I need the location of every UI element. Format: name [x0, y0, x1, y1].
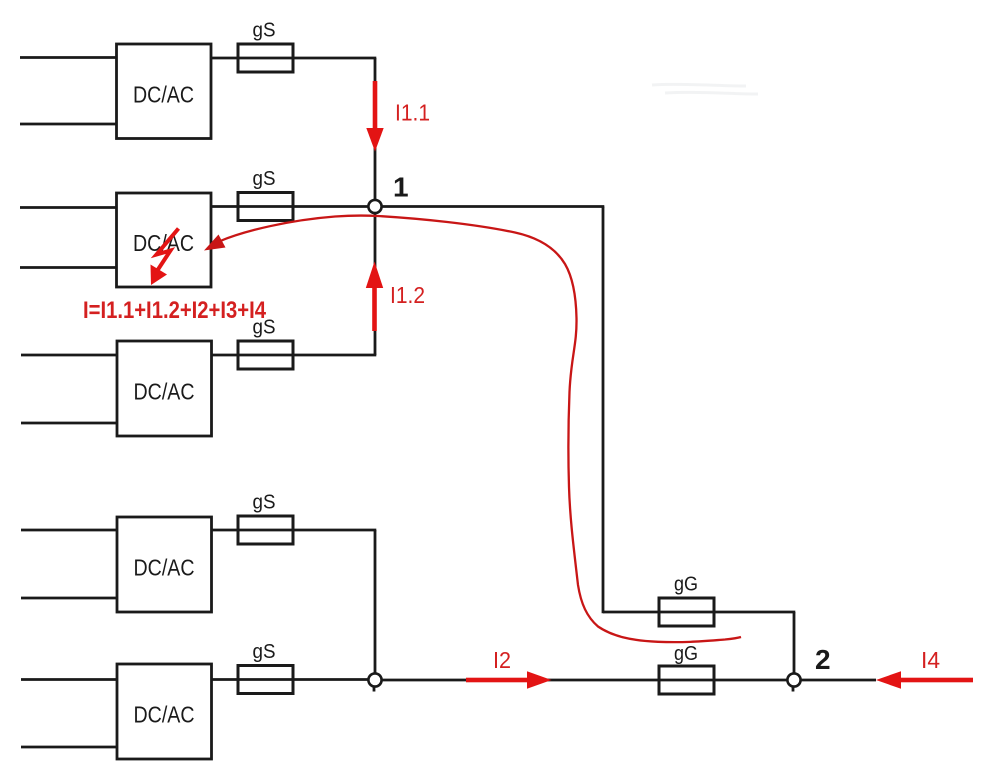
fuse F3 gS: [238, 341, 293, 369]
wire U4 output to fuse F4: [212, 529, 377, 532]
svg-text:DC/AC: DC/AC: [134, 702, 195, 728]
svg-text:DC/AC: DC/AC: [134, 379, 195, 405]
fault lightning bolt in U2: [157, 229, 179, 272]
wire vertical drop to node 2: [793, 612, 796, 673]
inverter U2 DC/AC: [117, 193, 212, 287]
wire bus node A to fuse G2: [382, 679, 788, 682]
svg-text:gG: gG: [674, 643, 698, 665]
wire U1 DC input top: [20, 56, 117, 59]
inverter U5 DC/AC: [117, 664, 212, 759]
wire U4 DC input top: [21, 529, 117, 532]
wire U3 output to fuse F3: [212, 354, 377, 357]
wire U2 output to fuse F2: [211, 205, 369, 208]
svg-text:1: 1: [393, 172, 409, 203]
fuse F1 gS: [238, 44, 293, 72]
wire U5 DC input top: [21, 678, 117, 681]
wire vertical rise to node 1: [374, 213, 377, 355]
svg-text:gS: gS: [253, 168, 276, 190]
svg-text:I1.2: I1.2: [390, 282, 425, 308]
fuse G1 gG: [659, 598, 714, 626]
svg-text:DC/AC: DC/AC: [133, 82, 194, 108]
svg-text:2: 2: [815, 644, 831, 675]
wire U5 DC input bottom: [21, 746, 117, 749]
wire corner to fuse G1: [603, 611, 795, 614]
svg-text:gS: gS: [253, 20, 276, 42]
svg-text:I2: I2: [493, 647, 511, 673]
inverter U1 DC/AC: [117, 44, 212, 139]
node A junction: [368, 673, 381, 691]
current arrow I1.2: [366, 262, 383, 332]
smudge artifact: [652, 84, 758, 94]
wire node 1 to right corner: [382, 205, 605, 208]
svg-text:I1.1: I1.1: [395, 100, 430, 126]
node 2: [787, 673, 800, 691]
wire U3 DC input top: [21, 354, 117, 357]
svg-text:gS: gS: [253, 492, 276, 514]
svg-text:I=I1.1+I1.2+I2+I3+I4: I=I1.1+I1.2+I2+I3+I4: [83, 297, 267, 324]
wire vertical right drop: [602, 207, 605, 614]
fuse F5 gS: [238, 666, 293, 694]
fuse F2 gS: [238, 193, 293, 221]
wire vertical drop to node 1: [374, 58, 377, 200]
wire U2 DC input bottom: [20, 266, 117, 269]
node 1: [368, 200, 381, 213]
wire U1 DC input bottom: [20, 123, 117, 126]
fault lightning arrowhead: [151, 265, 168, 286]
fault curve arrowhead: [204, 235, 226, 251]
wire U3 DC input bottom: [21, 422, 117, 425]
fuse G2 gG: [659, 666, 714, 694]
wire U5 output to fuse F5: [212, 678, 369, 681]
wire U2 DC input top: [20, 206, 117, 209]
current arrow I4: [876, 671, 973, 689]
wire U4 DC input bottom: [21, 597, 117, 600]
inverter U4 DC/AC: [117, 517, 212, 612]
wire node 2 to right: [801, 679, 877, 682]
svg-text:gG: gG: [674, 574, 698, 596]
svg-text:gS: gS: [253, 641, 276, 663]
inverter U3 DC/AC: [117, 341, 212, 436]
fault current return curve arrow: [219, 215, 741, 642]
wire U1 output to fuse F1: [211, 57, 376, 60]
current arrow I2: [466, 671, 552, 689]
svg-text:I4: I4: [921, 647, 940, 673]
fuse F4 gS: [238, 516, 293, 544]
svg-text:DC/AC: DC/AC: [134, 555, 195, 581]
wire vertical drop to node A: [374, 530, 377, 673]
current arrow I1.1: [366, 81, 383, 152]
